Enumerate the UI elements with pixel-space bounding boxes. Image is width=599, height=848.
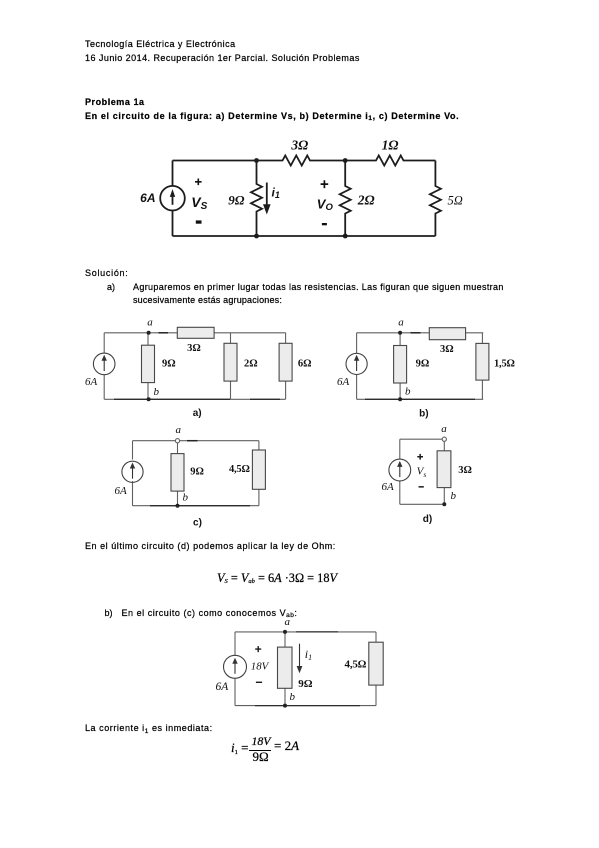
svg-text:VO: VO — [317, 196, 334, 213]
resistor 9 ohm — [251, 161, 262, 237]
resistor 3 ohm box fig d — [443, 441, 445, 504]
minus sign Vs — [196, 220, 202, 223]
svg-text:4,5Ω: 4,5Ω — [345, 658, 367, 670]
wire overlap dash fig c bottom — [150, 505, 250, 507]
node a fig d (open) — [442, 437, 446, 441]
svg-text:b: b — [154, 386, 160, 398]
svg-text:c): c) — [193, 517, 202, 528]
resistor 4.5 ohm box fig e — [375, 632, 377, 706]
resistor 2 ohm box fig a — [230, 333, 232, 400]
svg-text:6A: 6A — [85, 376, 98, 388]
plus sign fig e — [255, 646, 261, 652]
svg-text:a: a — [441, 423, 447, 435]
resistor 6 ohm box fig a — [285, 333, 287, 400]
svg-text:b: b — [183, 492, 189, 504]
resistor 4.5 ohm box fig c — [258, 441, 260, 506]
current source 6A fig d — [389, 459, 411, 481]
minus sign Vo — [322, 223, 327, 225]
resistor 9 ohm box fig e — [284, 632, 286, 706]
svg-text:9Ω: 9Ω — [228, 193, 245, 208]
node a fig c (open) — [175, 439, 179, 443]
svg-text:1Ω: 1Ω — [382, 138, 399, 153]
la corriente — [85, 723, 213, 735]
resistor 1.5 ohm box fig b — [481, 333, 483, 400]
svg-text:5Ω: 5Ω — [448, 194, 463, 208]
formula 2: i1 = 18V/9ohm = 2A — [231, 743, 248, 756]
current source 6A fig a — [93, 353, 115, 375]
svg-text:6A: 6A — [140, 191, 155, 205]
svg-text:18V: 18V — [251, 660, 270, 672]
svg-text:i1: i1 — [272, 186, 280, 201]
node b fig d — [442, 502, 446, 506]
svg-text:4,5Ω: 4,5Ω — [229, 464, 250, 475]
current source 6A fig e — [224, 655, 247, 678]
current source 6A fig c — [122, 461, 143, 482]
label Vs — [191, 194, 207, 212]
node b fig c — [176, 504, 180, 508]
svg-text:9Ω: 9Ω — [416, 359, 430, 370]
plus sign Vo — [321, 180, 329, 188]
node top-9 — [254, 158, 259, 163]
wire top rail a — [104, 332, 285, 334]
svg-text:6A: 6A — [216, 681, 230, 693]
svg-text:VS: VS — [191, 194, 207, 212]
wire overlap dash fig a — [159, 332, 169, 334]
wire left column b — [356, 333, 358, 400]
svg-text:a: a — [176, 424, 182, 436]
ley de ohm text — [85, 541, 336, 551]
wire overlap dash fig e bottom — [255, 705, 360, 707]
current arrow i1 — [266, 183, 268, 205]
wire bottom rail a — [104, 398, 285, 400]
svg-text:6Ω: 6Ω — [298, 359, 312, 370]
wire left column d — [399, 439, 401, 504]
node b fig e — [283, 704, 287, 708]
wire left column c — [132, 441, 134, 506]
svg-text:Vs: Vs — [417, 466, 427, 479]
svg-text:a: a — [398, 317, 404, 329]
wire top rail e — [235, 631, 376, 633]
wire bottom rail — [173, 235, 436, 237]
svg-text:6A: 6A — [115, 485, 128, 497]
problem statement — [85, 111, 459, 123]
wire left column a — [103, 333, 105, 400]
svg-text:1,5Ω: 1,5Ω — [494, 359, 515, 370]
svg-text:3Ω: 3Ω — [187, 343, 201, 354]
svg-text:a: a — [284, 616, 290, 628]
current source 6A — [160, 186, 185, 211]
svg-text:9Ω: 9Ω — [190, 467, 204, 478]
current arrow i1 fig e — [299, 644, 301, 669]
wire bottom rail b — [357, 398, 484, 400]
title — [85, 97, 145, 107]
current source 6A fig b — [346, 353, 367, 374]
node top-2 — [343, 158, 348, 163]
wire top rail b — [357, 332, 484, 334]
node bottom-9 — [254, 234, 259, 239]
svg-text:2Ω: 2Ω — [357, 193, 375, 208]
svg-text:b: b — [405, 386, 411, 398]
svg-text:9Ω: 9Ω — [298, 678, 313, 690]
plus sign Vs — [195, 179, 202, 186]
wire overlap dash fig e top — [296, 631, 338, 633]
svg-text:d): d) — [423, 514, 432, 525]
resistor 9 ohm box fig b — [399, 333, 401, 400]
resistor 1 ohm — [345, 156, 435, 166]
wire top rail — [173, 160, 257, 162]
minus sign fig e — [256, 682, 262, 683]
header line 1 — [85, 39, 236, 49]
resistor 3 ohm box fig a — [177, 327, 214, 338]
resistor 2 ohm — [340, 161, 351, 237]
wire bottom rail e — [235, 705, 376, 707]
wire top rail c — [133, 440, 259, 442]
resistor 9 ohm box fig a — [147, 333, 149, 400]
plus sign fig d — [417, 454, 423, 460]
wire top rail d — [400, 438, 442, 440]
label Vo — [317, 196, 334, 213]
wire overlap dash fig a bottom — [114, 398, 280, 400]
solucion — [85, 268, 129, 278]
svg-text:b: b — [451, 490, 457, 502]
header line 2 — [85, 53, 360, 63]
node b fig a — [147, 397, 151, 401]
svg-text:9Ω: 9Ω — [162, 359, 176, 370]
wire overlap dash fig b — [411, 332, 421, 334]
svg-text:a): a) — [193, 408, 202, 419]
node b fig b — [398, 397, 402, 401]
wire left column — [172, 161, 174, 237]
node a fig b — [398, 331, 402, 335]
svg-text:i1: i1 — [305, 647, 312, 662]
svg-text:a: a — [147, 317, 153, 329]
wire bottom rail d — [400, 503, 445, 505]
formula 1 — [217, 573, 337, 586]
wire bottom rail c — [133, 505, 259, 507]
wire left column e — [234, 632, 236, 706]
node a fig a — [147, 331, 151, 335]
resistor 5 ohm — [430, 161, 441, 237]
svg-text:3Ω: 3Ω — [290, 138, 308, 153]
node bottom-2 — [343, 234, 348, 239]
resistor 3 ohm box fig b — [429, 328, 465, 340]
svg-text:3Ω: 3Ω — [458, 465, 472, 476]
svg-text:2Ω: 2Ω — [244, 359, 258, 370]
svg-text:6A: 6A — [337, 376, 350, 388]
svg-text:6A: 6A — [382, 481, 395, 493]
svg-text:3Ω: 3Ω — [440, 344, 454, 355]
node a fig e — [283, 630, 287, 634]
wire overlap dash fig b bottom — [365, 398, 475, 400]
wire overlap dash fig c — [187, 440, 198, 442]
svg-text:b): b) — [419, 409, 428, 420]
resistor 9 ohm box fig c — [177, 443, 179, 506]
resistor 3 ohm — [257, 156, 346, 166]
minus sign fig d — [419, 486, 424, 488]
b) item — [105, 608, 113, 618]
svg-text:b: b — [290, 691, 296, 703]
